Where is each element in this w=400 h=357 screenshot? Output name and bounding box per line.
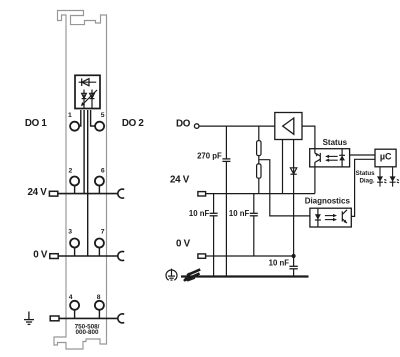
capacitor C1 10nF xyxy=(210,213,218,216)
svg-text:0 V: 0 V xyxy=(33,249,48,260)
svg-text:10 nF: 10 nF xyxy=(229,209,250,218)
capacitor C3 10nF xyxy=(289,266,297,269)
wire diagnostics to uC xyxy=(351,159,375,216)
svg-text:7: 7 xyxy=(101,228,105,235)
svg-text:4: 4 xyxy=(69,294,73,301)
wire mid to 0V xyxy=(87,110,89,256)
diagnostics phototransistor xyxy=(342,210,347,223)
svg-text:Diag.: Diag. xyxy=(359,177,374,184)
clamp 4 xyxy=(70,301,79,310)
capacitor 270pF xyxy=(222,159,230,162)
junction node xyxy=(292,254,296,258)
diode D2 xyxy=(290,168,296,174)
svg-text:24 V: 24 V xyxy=(170,175,190,186)
wire driver to 24V xyxy=(282,140,284,194)
0V rail right xyxy=(206,255,294,257)
wire status emitter to 24V xyxy=(314,162,316,193)
wire C3 0V to earth xyxy=(293,256,295,277)
clamp 2 xyxy=(70,177,79,186)
clamp 1 xyxy=(70,122,79,131)
terminal 24V left xyxy=(49,191,57,196)
functional earth symbol xyxy=(166,269,177,281)
svg-text:0 V: 0 V xyxy=(176,238,191,249)
svg-text:DO 1: DO 1 xyxy=(25,118,48,129)
wire C1 24V to earth xyxy=(213,194,215,277)
driver U1 xyxy=(275,113,302,140)
svg-text:DO 2: DO 2 xyxy=(122,118,145,129)
clamp 5 xyxy=(95,122,104,131)
LED L1 in box xyxy=(82,90,87,109)
svg-text:µC: µC xyxy=(380,151,392,161)
resistor R2 xyxy=(257,164,261,178)
clamp 3 xyxy=(70,239,79,248)
LED box xyxy=(75,75,100,108)
wire driver diode branch xyxy=(293,140,295,257)
wire DO to C270 to earth xyxy=(225,126,227,276)
jumper contact earth xyxy=(118,314,124,323)
diode D1 in LED box xyxy=(79,78,97,86)
svg-text:000-800: 000-800 xyxy=(75,329,99,336)
ground symbol left xyxy=(24,312,34,325)
svg-text:5: 5 xyxy=(101,112,105,119)
clamp 8 xyxy=(95,301,104,310)
24V rail right xyxy=(206,193,315,195)
clamp 7 xyxy=(95,239,104,248)
uC LED diag xyxy=(390,167,399,187)
optocoupler status box xyxy=(310,149,350,167)
svg-text:3: 3 xyxy=(68,229,72,236)
status light arrows xyxy=(325,155,338,162)
clamp 6 xyxy=(95,177,104,186)
svg-text:Status: Status xyxy=(356,170,375,177)
wire C2 24V to 0V xyxy=(253,194,255,256)
svg-text:1: 1 xyxy=(68,112,72,119)
diagnostics LED xyxy=(315,208,321,227)
svg-text:270 pF: 270 pF xyxy=(197,151,222,160)
svg-text:24 V: 24 V xyxy=(28,187,48,198)
svg-text:Status: Status xyxy=(323,138,348,147)
svg-text:8: 8 xyxy=(97,294,101,301)
earth rail xyxy=(181,275,309,277)
resistor R1 xyxy=(257,141,261,156)
uC box xyxy=(375,149,396,167)
0V rail left xyxy=(58,255,118,257)
svg-text:Diagnostics: Diagnostics xyxy=(305,196,351,205)
svg-text:6: 6 xyxy=(101,167,105,174)
wire status to uC xyxy=(350,154,375,156)
noiseless earth symbol xyxy=(184,269,200,281)
wire R1-R2 xyxy=(258,156,260,164)
status phototransistor xyxy=(315,153,320,163)
terminal earth left xyxy=(50,316,59,321)
uC LED status xyxy=(377,167,386,187)
status LED xyxy=(339,149,345,167)
wire DO to R1 xyxy=(258,126,260,141)
terminal 0V right xyxy=(198,254,206,258)
svg-text:2: 2 xyxy=(69,167,73,174)
jumper contact 24V xyxy=(118,189,124,198)
wire pin1 xyxy=(79,110,81,126)
wire tap to diagnostics xyxy=(259,160,310,216)
svg-text:10 nF: 10 nF xyxy=(269,259,290,268)
module outline xyxy=(54,11,107,350)
wire pin5 xyxy=(91,110,96,126)
wire R2 to 24V rail xyxy=(258,178,260,193)
optocoupler diagnostics box xyxy=(310,208,351,227)
wire mid to 24V xyxy=(83,110,85,194)
terminal 0V left xyxy=(50,254,58,259)
diagnostics light arrows xyxy=(325,214,337,221)
svg-text:10 nF: 10 nF xyxy=(189,209,210,218)
24V rail left xyxy=(58,193,119,195)
jumper contact 0V xyxy=(118,252,124,261)
earth rail left xyxy=(59,317,119,319)
capacitor C2 10nF xyxy=(250,213,258,216)
LED L2 in box xyxy=(90,90,95,109)
node DO xyxy=(194,124,199,129)
svg-text:DO: DO xyxy=(176,119,191,130)
arrow across LEDs xyxy=(81,90,97,106)
wire DO line xyxy=(199,125,275,127)
terminal 24V right xyxy=(198,192,206,196)
wire driver out xyxy=(302,126,315,153)
